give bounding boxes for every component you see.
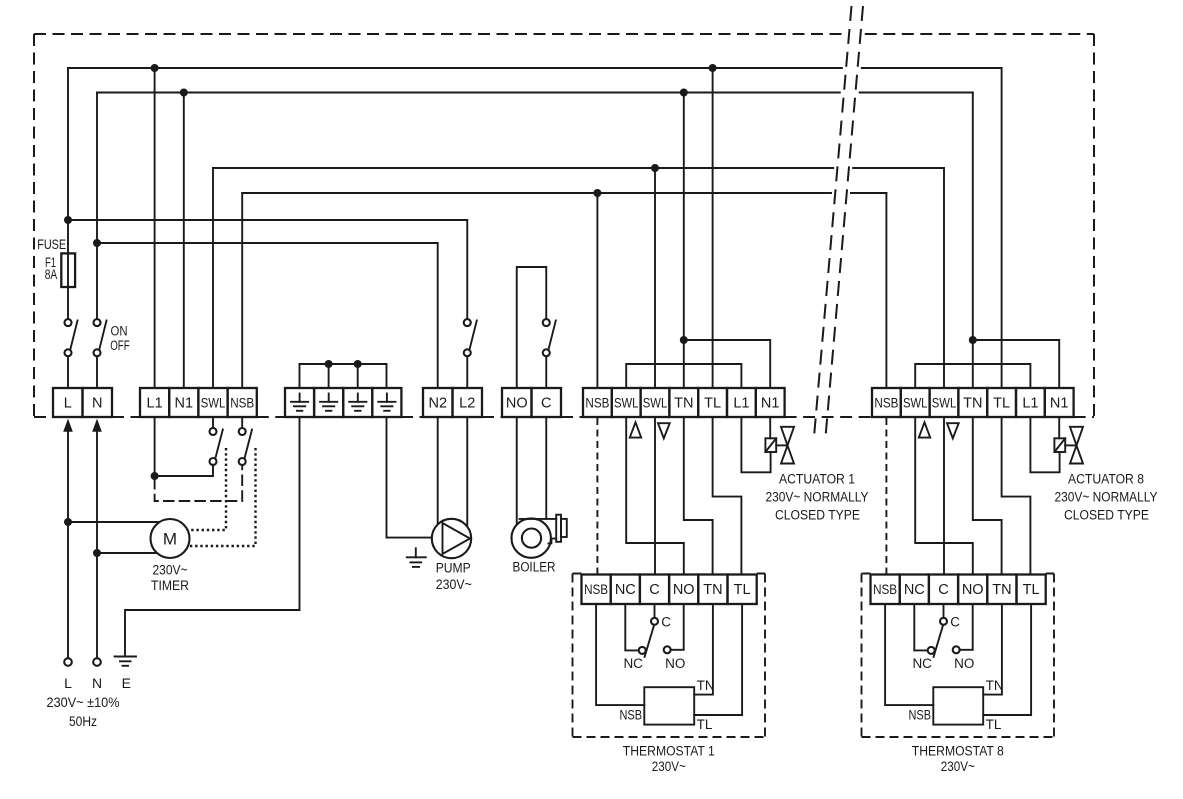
wire NSB timer drop xyxy=(241,193,243,388)
junction zone1 TN on N bus xyxy=(680,89,688,97)
switch S-boiler xyxy=(543,319,556,388)
svg-text:NSB: NSB xyxy=(874,395,898,410)
wire zone1 SWL1 to NO xyxy=(626,417,684,575)
label ACTUATOR 1 xyxy=(779,471,855,486)
earth jumper stub 2 xyxy=(325,360,333,388)
wire zone8 TN feed xyxy=(969,93,977,389)
svg-text:NC: NC xyxy=(912,656,932,671)
wire zone8 N1 to actuator xyxy=(1058,417,1060,438)
wire thermostat1 NSB link xyxy=(596,604,644,705)
svg-text:TL: TL xyxy=(993,395,1010,411)
flow arrow up zone8 xyxy=(919,422,930,437)
svg-text:NSB: NSB xyxy=(230,395,254,410)
boiler xyxy=(512,515,567,558)
label L entry xyxy=(64,675,72,691)
actuator coil M1 xyxy=(765,438,776,452)
actuator valve V1 xyxy=(776,427,794,464)
label 8A xyxy=(45,267,58,282)
wire L bus xyxy=(68,67,1002,69)
label actuator1 type xyxy=(775,508,860,523)
svg-text:NSB: NSB xyxy=(620,708,643,723)
arrow N entry xyxy=(92,419,102,432)
terminal L1 zone1 xyxy=(727,388,756,417)
svg-text:NO: NO xyxy=(665,656,685,671)
svg-text:L1: L1 xyxy=(733,395,749,411)
wire N bus xyxy=(97,92,973,94)
svg-text:TN: TN xyxy=(986,678,1004,693)
wire thermostat8 NC xyxy=(914,604,928,650)
svg-text:ACTUATOR 1: ACTUATOR 1 xyxy=(779,471,855,486)
svg-text:8A: 8A xyxy=(45,267,58,282)
enclosure dashed border xyxy=(34,34,1094,417)
wire NO to boiler xyxy=(516,417,518,525)
wire SWL switch stub xyxy=(212,417,214,428)
wire zone1 TL link xyxy=(713,417,742,575)
label ACTUATOR 8 xyxy=(1068,471,1144,486)
svg-text:50Hz: 50Hz xyxy=(69,714,97,729)
svg-text:TN: TN xyxy=(697,678,715,693)
wire L entry xyxy=(67,428,69,659)
label 230V spec xyxy=(47,695,120,710)
label C thermostat8 xyxy=(950,615,960,630)
svg-text:TIMER: TIMER xyxy=(151,578,189,593)
switch S-L xyxy=(65,319,78,388)
terminal NSB zone1 xyxy=(583,388,612,417)
terminal L2 pump xyxy=(453,388,483,417)
terminal earth 4 xyxy=(372,388,401,417)
svg-text:ACTUATOR 8: ACTUATOR 8 xyxy=(1068,471,1144,486)
wire zone1 TL feed xyxy=(712,68,714,388)
thermostat 1 body xyxy=(644,687,694,724)
svg-text:L: L xyxy=(64,675,72,691)
dotted link timer-SWL xyxy=(188,448,226,530)
svg-text:230V~: 230V~ xyxy=(652,759,686,774)
svg-text:THERMOSTAT 8: THERMOSTAT 8 xyxy=(912,744,1004,759)
label actuator8 type xyxy=(1064,508,1149,523)
svg-text:TN: TN xyxy=(992,582,1011,598)
svg-text:230V~: 230V~ xyxy=(941,759,975,774)
wire zone8 N1 feed xyxy=(973,340,1059,388)
label actuator8 230V xyxy=(1055,490,1158,505)
label F1 xyxy=(45,255,56,270)
wire N1 timer drop xyxy=(183,93,185,389)
switch S-NSB xyxy=(239,428,252,465)
label THERMOSTAT 8 xyxy=(912,744,1004,759)
wire zone1 SWL2 to C xyxy=(654,417,656,575)
label thermostat8 230V xyxy=(941,759,975,774)
svg-text:SWL: SWL xyxy=(201,395,226,410)
wire zone1 NSB feed xyxy=(596,193,598,388)
break line left xyxy=(814,6,852,437)
label ON xyxy=(111,324,128,339)
svg-text:N1: N1 xyxy=(1050,395,1069,411)
svg-text:ON: ON xyxy=(111,324,128,339)
svg-text:M: M xyxy=(163,530,177,549)
label N entry xyxy=(92,675,102,691)
wire NSB switch stub xyxy=(241,417,243,428)
terminal N2 pump xyxy=(423,388,453,417)
wire thermostat1 TN link xyxy=(694,604,713,695)
svg-text:TL: TL xyxy=(1023,582,1040,598)
svg-text:SWL: SWL xyxy=(903,395,928,410)
switch S-N xyxy=(94,319,107,388)
svg-text:SWL: SWL xyxy=(932,395,957,410)
svg-text:N1: N1 xyxy=(175,395,194,411)
label TN thermostat8 body xyxy=(986,678,1004,693)
wire earth to pump xyxy=(387,417,432,538)
terminal C thermostat8 xyxy=(929,575,958,605)
thermostat 8 dashed box xyxy=(862,574,1055,738)
terminal L1 timer xyxy=(140,388,169,417)
terminal TL zone1 xyxy=(698,388,727,417)
wire N2 to pump xyxy=(437,417,439,525)
wire SWL bus xyxy=(213,167,944,169)
svg-text:TN: TN xyxy=(674,395,693,411)
svg-text:OFF: OFF xyxy=(110,338,130,353)
terminal NSB timer xyxy=(228,388,257,417)
terminal TN thermostat1 xyxy=(698,575,727,605)
wire thermostat1 NC xyxy=(625,604,639,650)
wire N to timer xyxy=(93,549,157,557)
label TIMER xyxy=(151,578,189,593)
thermostat 8 body xyxy=(933,687,983,724)
flow arrow down zone1 xyxy=(658,423,670,438)
svg-text:NO: NO xyxy=(954,656,974,671)
svg-text:THERMOSTAT 1: THERMOSTAT 1 xyxy=(623,744,715,759)
junction N1 timer on N bus xyxy=(180,89,188,97)
terminal TL zone8 xyxy=(987,388,1016,417)
label BOILER xyxy=(513,560,556,575)
svg-text:N: N xyxy=(92,675,102,691)
wire C to boiler xyxy=(545,417,547,519)
svg-text:TN: TN xyxy=(963,395,982,411)
wire pump switch feed xyxy=(68,220,467,319)
wire thermostat8 NSB link xyxy=(885,604,933,705)
terminal NSB thermostat8 xyxy=(871,575,900,605)
svg-text:NO: NO xyxy=(506,395,528,411)
terminal NC thermostat1 xyxy=(611,575,640,605)
svg-text:TL: TL xyxy=(704,395,721,411)
svg-text:E: E xyxy=(122,675,131,691)
wire zone1 TN feed xyxy=(680,93,688,389)
switch S-SWL xyxy=(210,428,223,465)
terminal SWL zone8 xyxy=(901,388,930,417)
wire N2 feed xyxy=(97,243,438,388)
label NC thermostat1 xyxy=(623,656,643,671)
wire zone8 SWL1 to NO xyxy=(915,417,973,575)
wire zone8 NSB feed xyxy=(885,193,887,388)
terminal SWL zone1 xyxy=(612,388,641,417)
svg-text:NSB: NSB xyxy=(584,582,608,597)
wire zone8 SWL2 to C xyxy=(943,417,945,575)
label THERMOSTAT 1 xyxy=(623,744,715,759)
wire zone1 NSB dashed drop xyxy=(596,418,598,575)
wire NSB bus xyxy=(242,192,886,194)
label thermostat1 230V xyxy=(652,759,686,774)
thermostat 1 dashed box xyxy=(573,574,766,738)
wire earth to E xyxy=(125,417,300,657)
junction zone1 NSB on NSB bus xyxy=(593,189,601,197)
label TL thermostat1 body xyxy=(697,717,713,732)
svg-text:C: C xyxy=(649,582,659,598)
label NSB thermostat8 body xyxy=(909,708,932,723)
contact NC thermostat8 xyxy=(928,647,935,654)
terminal N1 timer xyxy=(169,388,198,417)
wire L2 to pump xyxy=(466,417,468,527)
terminal N1 zone8 xyxy=(1045,388,1074,417)
svg-text:SWL: SWL xyxy=(643,395,668,410)
svg-text:230V~ NORMALLY: 230V~ NORMALLY xyxy=(766,490,869,505)
switch S-pump xyxy=(464,319,477,388)
terminal C thermostat1 xyxy=(640,575,669,605)
svg-text:230V~ NORMALLY: 230V~ NORMALLY xyxy=(1055,490,1158,505)
wire thermostat1 C xyxy=(654,604,656,618)
dashed link NSB switch xyxy=(155,466,243,502)
svg-text:FUSE: FUSE xyxy=(37,237,66,252)
label NSB thermostat1 body xyxy=(620,708,643,723)
terminal TL thermostat1 xyxy=(728,575,757,605)
svg-text:TN: TN xyxy=(703,582,722,598)
svg-text:230V~: 230V~ xyxy=(436,577,472,592)
wire thermostat8 TN link xyxy=(983,604,1002,695)
wire zone8 NSB dashed drop xyxy=(885,418,887,575)
label NC thermostat8 xyxy=(912,656,932,671)
wire zone8 TL feed xyxy=(1001,68,1003,388)
wire N entry xyxy=(96,428,98,659)
wire zone8 L1 to actuator xyxy=(1030,417,1059,472)
terminal SWL zone8 xyxy=(930,388,959,417)
break line right xyxy=(826,6,864,437)
terminal TN zone1 xyxy=(669,388,698,417)
wire L to timer xyxy=(64,518,160,526)
junction timer L1 link xyxy=(151,417,159,480)
terminal L mains xyxy=(53,388,83,417)
wire zone8 SWL-L1 jumper xyxy=(915,364,1030,388)
terminal TN zone8 xyxy=(958,388,987,417)
terminal N1 zone1 xyxy=(756,388,785,417)
wire L supply drop xyxy=(67,68,69,319)
label timer 230V xyxy=(153,563,188,578)
svg-text:C: C xyxy=(950,615,960,630)
terminal NO thermostat1 xyxy=(669,575,698,605)
wire zone1 L1 to actuator xyxy=(741,417,770,472)
wire thermostat8 TL link xyxy=(983,604,1031,715)
svg-text:NSB: NSB xyxy=(585,395,609,410)
wire thermostat1 TL link xyxy=(694,604,742,715)
earth jumper stub 3 xyxy=(354,360,362,388)
switch blade thermostat8 xyxy=(934,625,943,657)
svg-text:L1: L1 xyxy=(1022,395,1038,411)
wire SWL switch to L1 link xyxy=(155,465,213,476)
svg-text:NO: NO xyxy=(673,582,695,598)
ground E xyxy=(115,657,137,666)
label NO thermostat8 xyxy=(954,656,974,671)
svg-text:SWL: SWL xyxy=(614,395,639,410)
flow arrow down zone8 xyxy=(947,423,959,438)
terminal NSB thermostat1 xyxy=(582,575,611,605)
wire thermostat8 C xyxy=(943,604,945,618)
label NO thermostat1 xyxy=(665,656,685,671)
svg-text:NC: NC xyxy=(623,656,643,671)
terminal circle N entry xyxy=(93,658,101,666)
label pump 230V xyxy=(436,577,472,592)
contact C thermostat8 xyxy=(940,618,947,625)
label actuator1 230V xyxy=(766,490,869,505)
terminal N mains xyxy=(83,388,113,417)
wire zone1 SWL-L1 jumper xyxy=(626,364,741,388)
label 50Hz xyxy=(69,714,97,729)
label FUSE xyxy=(37,237,66,252)
ground pump xyxy=(407,548,426,567)
contact NO thermostat8 xyxy=(953,646,960,653)
terminal NC thermostat8 xyxy=(900,575,929,605)
wire zone8 SWL feed xyxy=(943,168,945,388)
terminal NO thermostat8 xyxy=(958,575,987,605)
svg-text:L2: L2 xyxy=(459,395,475,411)
svg-text:TL: TL xyxy=(697,717,713,732)
contact NC thermostat1 xyxy=(639,647,646,654)
terminal NO boiler xyxy=(502,388,532,417)
terminal SWL timer xyxy=(198,388,227,417)
label E entry xyxy=(122,675,131,691)
label PUMP xyxy=(436,561,471,576)
wire thermostat1 NO xyxy=(670,604,683,650)
svg-text:TL: TL xyxy=(986,717,1002,732)
svg-text:CLOSED TYPE: CLOSED TYPE xyxy=(775,508,860,523)
timer motor M xyxy=(151,519,190,558)
terminal C boiler xyxy=(532,388,562,417)
terminal NSB zone8 xyxy=(872,388,901,417)
dotted link timer-NSB xyxy=(188,448,256,546)
terminal TL thermostat8 xyxy=(1017,575,1046,605)
terminal earth 3 xyxy=(343,388,372,417)
svg-text:NC: NC xyxy=(904,582,925,598)
svg-text:230V~ ±10%: 230V~ ±10% xyxy=(47,695,120,710)
svg-text:L1: L1 xyxy=(147,395,163,411)
wire SWL timer drop xyxy=(212,168,214,388)
svg-text:N: N xyxy=(92,395,102,411)
terminal earth 1 xyxy=(285,388,314,417)
label TL thermostat8 body xyxy=(986,717,1002,732)
earth jumper xyxy=(300,364,387,388)
svg-text:NSB: NSB xyxy=(909,708,932,723)
junction N-pump feed xyxy=(93,239,101,247)
svg-text:TL: TL xyxy=(734,582,751,598)
terminal L1 zone8 xyxy=(1016,388,1045,417)
junction L-pump feed xyxy=(64,216,72,224)
contact NO thermostat1 xyxy=(664,646,671,653)
boiler interlock loop xyxy=(517,267,547,388)
svg-text:N2: N2 xyxy=(429,395,448,411)
junction zone1 TL on L bus xyxy=(709,64,717,72)
svg-text:230V~: 230V~ xyxy=(153,563,188,578)
svg-text:NC: NC xyxy=(615,582,636,598)
actuator valve V8 xyxy=(1065,427,1083,464)
wire zone8 TN link xyxy=(973,417,1002,575)
wire thermostat8 NO xyxy=(959,604,972,650)
svg-text:L: L xyxy=(64,395,72,411)
label C thermostat1 xyxy=(661,615,671,630)
junction L1 timer on L bus xyxy=(151,64,159,72)
contact C thermostat1 xyxy=(651,618,658,625)
svg-text:C: C xyxy=(541,395,551,411)
label TN thermostat1 body xyxy=(697,678,715,693)
wire zone1 N1 to actuator xyxy=(769,417,771,438)
svg-text:CLOSED TYPE: CLOSED TYPE xyxy=(1064,508,1149,523)
wire L1 timer drop xyxy=(154,68,156,388)
actuator coil M8 xyxy=(1054,438,1065,452)
flow arrow up zone1 xyxy=(630,422,641,437)
wire N supply drop xyxy=(96,93,98,320)
wire zone8 TL link xyxy=(1002,417,1031,575)
terminal SWL zone1 xyxy=(641,388,670,417)
svg-text:C: C xyxy=(938,582,948,598)
wire zone1 SWL feed xyxy=(654,168,656,388)
svg-text:C: C xyxy=(661,615,671,630)
label OFF xyxy=(110,338,130,353)
terminal circle L entry xyxy=(64,658,72,666)
wire zone1 TN link xyxy=(684,417,713,575)
terminal earth 2 xyxy=(314,388,343,417)
svg-text:PUMP: PUMP xyxy=(436,561,471,576)
wire zone1 N1 feed xyxy=(684,340,770,388)
junction zone1 SWL on SWL bus xyxy=(651,164,659,172)
arrow L entry xyxy=(63,419,73,432)
svg-text:N1: N1 xyxy=(761,395,780,411)
svg-text:NSB: NSB xyxy=(873,582,897,597)
terminal TN thermostat8 xyxy=(987,575,1016,605)
svg-text:NO: NO xyxy=(962,582,984,598)
fuse F1 xyxy=(61,253,75,287)
svg-text:BOILER: BOILER xyxy=(513,560,556,575)
pump motor xyxy=(432,519,471,558)
switch blade thermostat1 xyxy=(645,625,654,657)
